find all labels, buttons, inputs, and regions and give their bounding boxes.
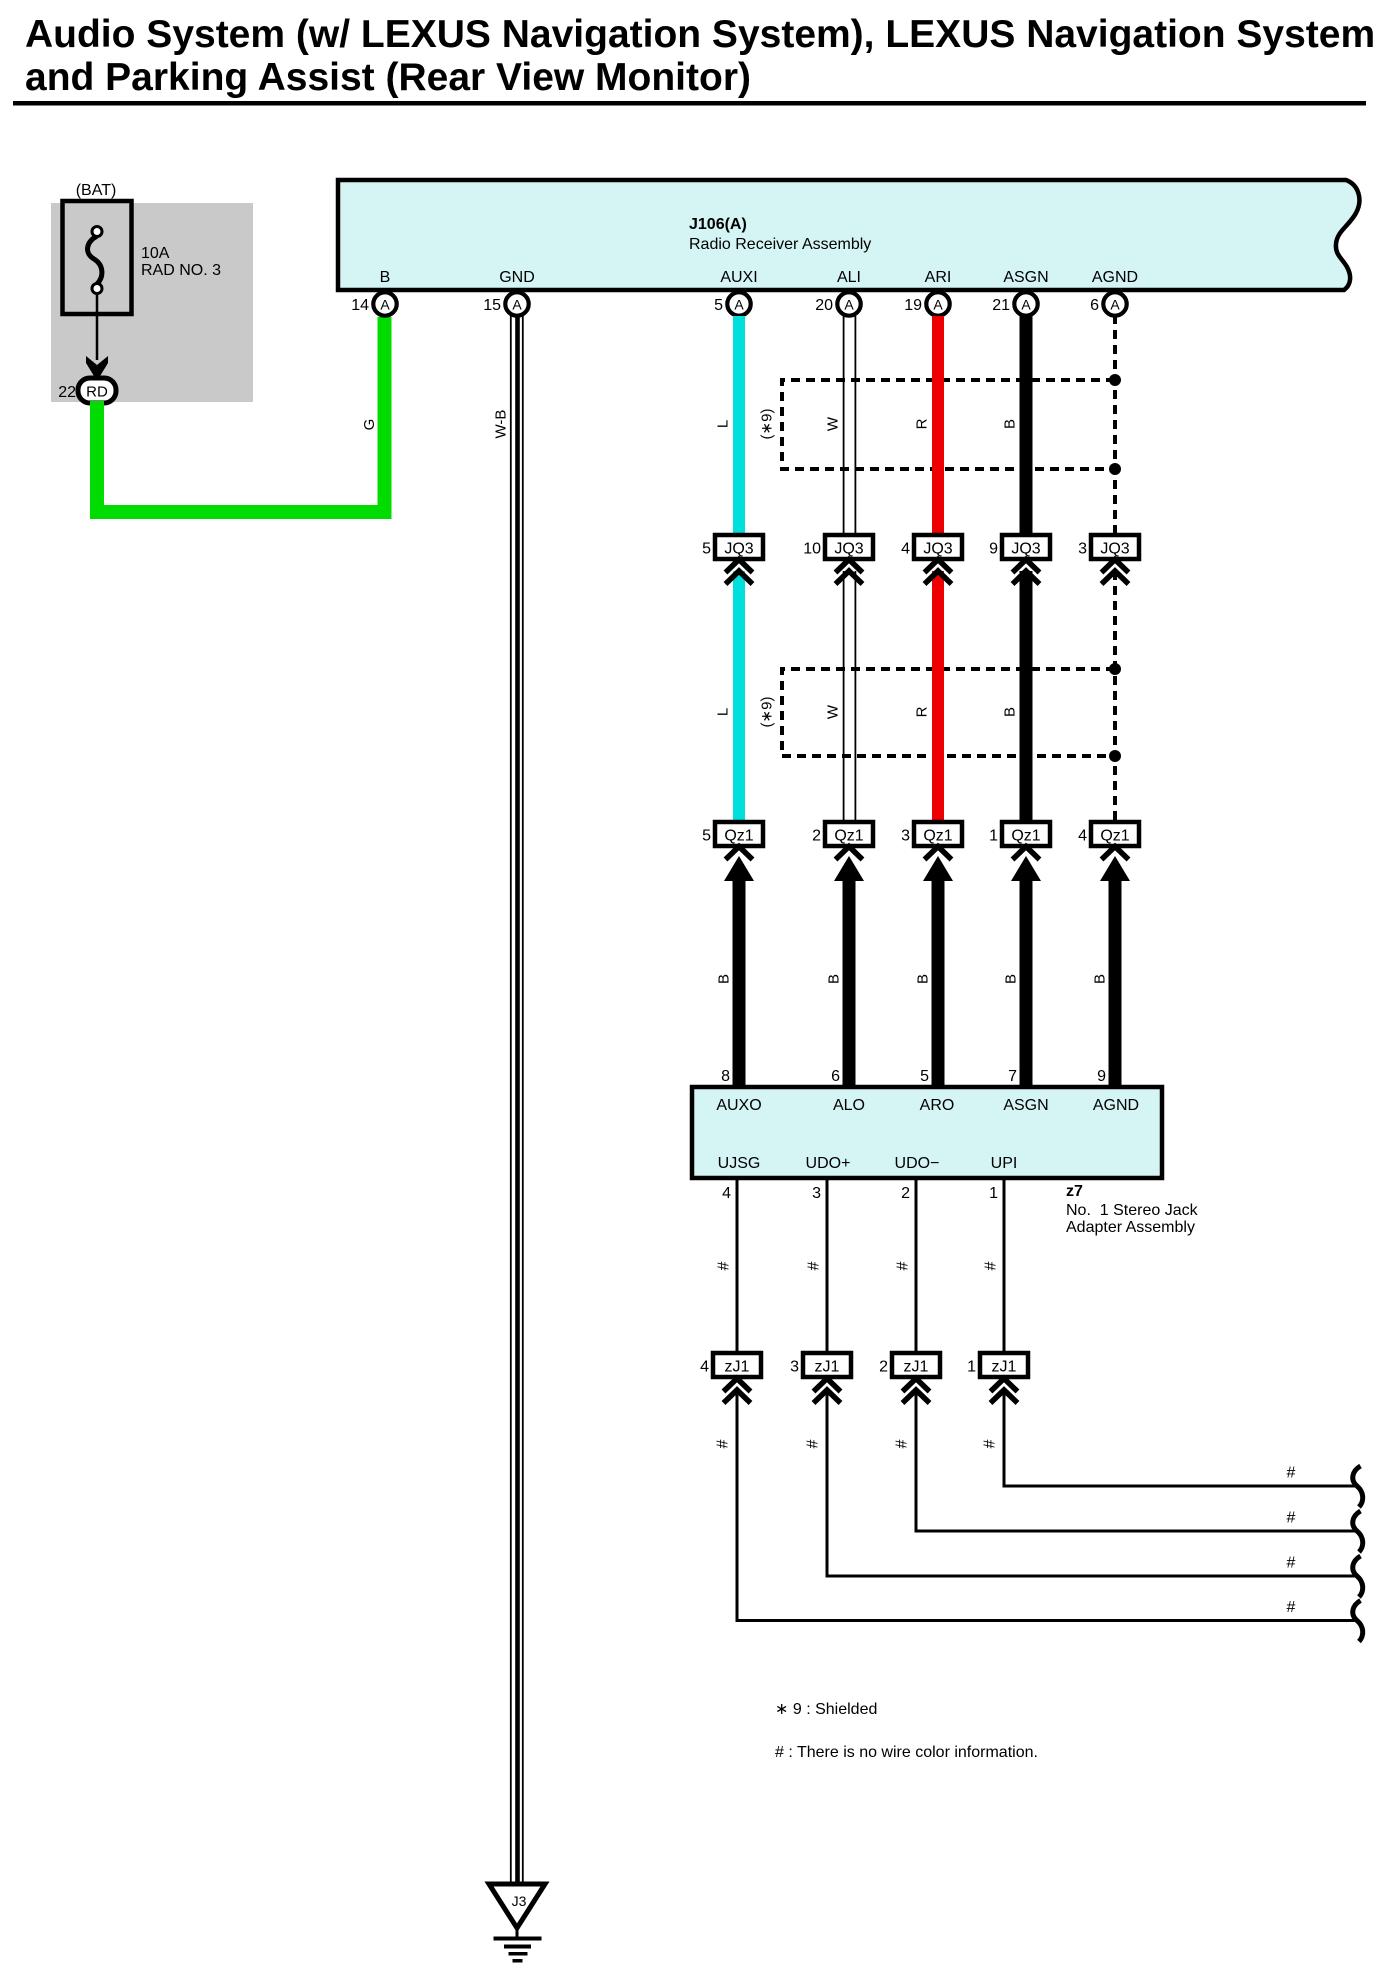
wire fuse to connector 22 xyxy=(86,293,108,381)
wire B below Qz1 3 xyxy=(932,872,945,1087)
svg-text:B: B xyxy=(380,269,391,286)
svg-text:#: # xyxy=(1287,1465,1296,1482)
svg-text:ARO: ARO xyxy=(920,1097,955,1114)
svg-text:UPI: UPI xyxy=(991,1155,1018,1172)
svg-text:JQ3: JQ3 xyxy=(834,541,863,558)
svg-text:1: 1 xyxy=(989,828,998,845)
svg-text:L: L xyxy=(715,708,732,716)
svg-text:ASGN: ASGN xyxy=(1003,1097,1048,1114)
wire W ALI segment 2 xyxy=(843,571,857,822)
svg-text:2: 2 xyxy=(901,1185,910,1202)
pin 15 GND of J106(A) xyxy=(483,269,535,316)
svg-text:AUXO: AUXO xyxy=(716,1097,761,1114)
svg-text:Audio System (w/ LEXUS Navigat: Audio System (w/ LEXUS Navigation System… xyxy=(25,13,1375,56)
svg-text:5: 5 xyxy=(714,297,723,314)
svg-text:A: A xyxy=(1110,297,1120,313)
svg-text:RAD NO. 3: RAD NO. 3 xyxy=(141,262,221,279)
connector zJ1 pin 2 xyxy=(879,1353,940,1403)
svg-text:JQ3: JQ3 xyxy=(923,541,952,558)
junction shield dot 4 xyxy=(1109,750,1121,762)
svg-text:9: 9 xyxy=(989,541,998,558)
connector Qz1 pin 4 xyxy=(1078,822,1139,881)
svg-text:B: B xyxy=(1092,974,1109,984)
svg-text:B: B xyxy=(826,974,843,984)
svg-text:3: 3 xyxy=(812,1185,821,1202)
svg-text:L: L xyxy=(715,420,732,428)
svg-text:10A: 10A xyxy=(141,245,170,262)
svg-text:zJ1: zJ1 xyxy=(904,1359,929,1376)
connector JQ3 pin 9 xyxy=(989,535,1050,584)
svg-text:A: A xyxy=(380,297,390,313)
svg-text:W: W xyxy=(825,704,842,719)
svg-text:10: 10 xyxy=(803,541,821,558)
wire B below Qz1 5 xyxy=(733,872,746,1087)
svg-text:#: # xyxy=(895,1261,912,1270)
svg-text:20: 20 xyxy=(815,297,833,314)
svg-text:21: 21 xyxy=(992,297,1010,314)
svg-text:3: 3 xyxy=(901,828,910,845)
svg-text:UJSG: UJSG xyxy=(718,1155,761,1172)
connector JQ3 pin 10 xyxy=(803,535,873,584)
svg-text:7: 7 xyxy=(1008,1068,1017,1085)
pin 19 ARI of J106(A) xyxy=(904,269,951,316)
svg-text:5: 5 xyxy=(920,1068,929,1085)
wire AGND dashed segment 2 xyxy=(1113,571,1117,822)
pin 6 AGND of J106(A) xyxy=(1090,269,1138,316)
connector JQ3 pin 4 xyxy=(901,535,962,584)
svg-text:#: # xyxy=(1287,1555,1296,1572)
svg-text:Radio Receiver Assembly: Radio Receiver Assembly xyxy=(689,236,871,253)
svg-text:Adapter Assembly: Adapter Assembly xyxy=(1066,1219,1195,1236)
wire L AUXI segment 1 xyxy=(733,316,745,535)
svg-text:5: 5 xyxy=(702,828,711,845)
svg-text:22: 22 xyxy=(58,384,76,401)
svg-text:3: 3 xyxy=(790,1359,799,1376)
wire zJ1 to page edge 2 xyxy=(916,1390,1357,1531)
svg-text:B: B xyxy=(1002,707,1019,717)
svg-text:(∗9): (∗9) xyxy=(759,409,776,440)
junction shield dot 1 xyxy=(1109,374,1121,386)
svg-text:GND: GND xyxy=(499,269,535,286)
connector zJ1 pin 4 xyxy=(700,1353,761,1403)
svg-text:J3: J3 xyxy=(512,1893,527,1909)
connector zJ1 pin 1 xyxy=(967,1353,1028,1403)
wire B ASGN segment 1 xyxy=(1020,316,1033,535)
connector zJ1 pin 3 xyxy=(790,1353,851,1403)
pin 21 ASGN of J106(A) xyxy=(992,269,1048,316)
wire below z7 col 1 xyxy=(736,1178,739,1353)
connector JQ3 pin 5 xyxy=(702,535,763,584)
svg-text:8: 8 xyxy=(721,1068,730,1085)
wire W ALI segment 1 xyxy=(843,316,857,535)
svg-text:#: # xyxy=(1287,1510,1296,1527)
svg-text:Qz1: Qz1 xyxy=(1011,828,1040,845)
svg-text:zJ1: zJ1 xyxy=(725,1359,750,1376)
wire B ASGN segment 2 xyxy=(1020,571,1033,822)
wire below z7 col 4 xyxy=(1003,1178,1006,1353)
wire L AUXI segment 2 xyxy=(733,571,745,822)
shield box 2 (*9) xyxy=(782,669,1115,756)
wire AGND dashed segment 1 xyxy=(1113,315,1117,535)
svg-text:∗ 9 : Shielded: ∗ 9 : Shielded xyxy=(775,1701,877,1718)
pin 14 B of J106(A) xyxy=(351,269,396,316)
pin 5 AUXI of J106(A) xyxy=(714,269,758,316)
page continuation squiggle 4 xyxy=(1353,1601,1363,1642)
pin 20 ALI of J106(A) xyxy=(815,269,861,316)
svg-text:ALI: ALI xyxy=(837,269,861,286)
wire zJ1 to page edge 3 xyxy=(827,1390,1357,1576)
svg-text:JQ3: JQ3 xyxy=(1011,541,1040,558)
title text xyxy=(25,13,1375,99)
svg-text:No. 1 Stereo Jack: No. 1 Stereo Jack xyxy=(1066,1202,1199,1219)
fuse block background xyxy=(51,203,253,402)
svg-text:A: A xyxy=(933,297,943,313)
svg-text:(BAT): (BAT) xyxy=(76,182,117,199)
svg-text:2: 2 xyxy=(879,1359,888,1376)
wire below z7 col 3 xyxy=(915,1178,918,1353)
svg-text:#: # xyxy=(1287,1599,1296,1616)
svg-text:#: # xyxy=(894,1439,911,1448)
svg-text:JQ3: JQ3 xyxy=(724,541,753,558)
svg-text:R: R xyxy=(914,706,931,717)
page continuation squiggle 2 xyxy=(1353,1511,1363,1552)
svg-text:z7: z7 xyxy=(1066,1183,1083,1200)
svg-text:ALO: ALO xyxy=(833,1097,865,1114)
svg-text:G: G xyxy=(361,419,378,431)
connector Qz1 pin 1 xyxy=(989,822,1050,881)
svg-text:W: W xyxy=(825,416,842,431)
svg-text:ARI: ARI xyxy=(925,269,952,286)
svg-text:zJ1: zJ1 xyxy=(992,1359,1017,1376)
svg-text:5: 5 xyxy=(702,541,711,558)
wire B below Qz1 1 xyxy=(1020,872,1033,1087)
wire below z7 col 2 xyxy=(826,1178,829,1353)
svg-text:W-B: W-B xyxy=(493,410,510,439)
svg-text:ASGN: ASGN xyxy=(1003,269,1048,286)
svg-text:6: 6 xyxy=(831,1068,840,1085)
svg-text:4: 4 xyxy=(901,541,910,558)
wire W-B GND xyxy=(510,316,524,1884)
svg-text:AGND: AGND xyxy=(1093,1097,1139,1114)
svg-text:A: A xyxy=(512,297,522,313)
svg-text:(∗9): (∗9) xyxy=(759,697,776,728)
junction shield dot 2 xyxy=(1109,463,1121,475)
svg-text:#: # xyxy=(716,1261,733,1270)
svg-text:A: A xyxy=(844,297,854,313)
z7 designation label xyxy=(1066,1183,1199,1236)
wire zJ1 to page edge 4 xyxy=(737,1390,1357,1621)
fuse F 10A RAD NO.3 xyxy=(63,201,132,314)
svg-text:B: B xyxy=(1003,974,1020,984)
svg-text:15: 15 xyxy=(483,297,501,314)
svg-text:UDO+: UDO+ xyxy=(806,1155,851,1172)
svg-text:zJ1: zJ1 xyxy=(815,1359,840,1376)
stereo jack adapter z7 box xyxy=(692,1087,1162,1178)
connector Qz1 pin 3 xyxy=(901,822,962,881)
svg-text:4: 4 xyxy=(1078,828,1087,845)
svg-text:6: 6 xyxy=(1090,297,1099,314)
svg-text:B: B xyxy=(915,974,932,984)
svg-text:1: 1 xyxy=(967,1359,976,1376)
wire G (B feed) xyxy=(97,317,385,512)
svg-text:Qz1: Qz1 xyxy=(724,828,753,845)
svg-text:#: # xyxy=(983,1261,1000,1270)
connector 22 (RD) xyxy=(58,378,116,403)
svg-text:19: 19 xyxy=(904,297,922,314)
svg-text:1: 1 xyxy=(989,1185,998,1202)
svg-text:JQ3: JQ3 xyxy=(1100,541,1129,558)
svg-text:UDO−: UDO− xyxy=(895,1155,940,1172)
junction shield dot 3 xyxy=(1109,663,1121,675)
svg-text:AUXI: AUXI xyxy=(720,269,757,286)
J106(A) label xyxy=(689,216,871,253)
svg-text:A: A xyxy=(734,297,744,313)
connector Qz1 pin 5 xyxy=(702,822,763,881)
svg-text:# : There is no wire color inf: # : There is no wire color information. xyxy=(775,1744,1038,1761)
svg-text:and Parking Assist (Rear View: and Parking Assist (Rear View Monitor) xyxy=(25,56,751,99)
svg-text:3: 3 xyxy=(1078,541,1087,558)
page continuation squiggle 3 xyxy=(1353,1556,1363,1597)
svg-text:Qz1: Qz1 xyxy=(923,828,952,845)
connector JQ3 pin 3 xyxy=(1078,535,1139,584)
svg-text:Qz1: Qz1 xyxy=(1100,828,1129,845)
svg-text:9: 9 xyxy=(1097,1068,1106,1085)
wire zJ1 to page edge 1 xyxy=(1004,1390,1357,1486)
svg-text:2: 2 xyxy=(812,828,821,845)
shield box 1 (*9) xyxy=(782,380,1115,469)
wire B below Qz1 4 xyxy=(1109,872,1122,1087)
svg-text:Qz1: Qz1 xyxy=(834,828,863,845)
wire B below Qz1 2 xyxy=(843,872,856,1087)
title underline xyxy=(13,101,1366,106)
ground J3 xyxy=(489,1884,545,1963)
svg-text:4: 4 xyxy=(722,1185,731,1202)
svg-text:#: # xyxy=(805,1439,822,1448)
svg-text:AGND: AGND xyxy=(1092,269,1138,286)
svg-text:A: A xyxy=(1021,297,1031,313)
svg-text:R: R xyxy=(914,418,931,429)
svg-text:#: # xyxy=(806,1261,823,1270)
wire R ARI segment 2 xyxy=(932,571,944,822)
fuse value label 10A RAD NO. 3 xyxy=(141,245,221,279)
svg-text:B: B xyxy=(1002,419,1019,429)
svg-text:B: B xyxy=(716,974,733,984)
svg-text:J106(A): J106(A) xyxy=(689,216,747,233)
svg-text:RD: RD xyxy=(86,384,108,401)
connector Qz1 pin 2 xyxy=(812,822,873,881)
svg-text:#: # xyxy=(715,1439,732,1448)
page continuation squiggle 1 xyxy=(1353,1466,1363,1507)
svg-text:4: 4 xyxy=(700,1359,709,1376)
radio receiver assembly J106(A) box xyxy=(338,180,1359,290)
svg-text:#: # xyxy=(982,1439,999,1448)
svg-text:14: 14 xyxy=(351,297,369,314)
wire R ARI segment 1 xyxy=(932,316,944,535)
